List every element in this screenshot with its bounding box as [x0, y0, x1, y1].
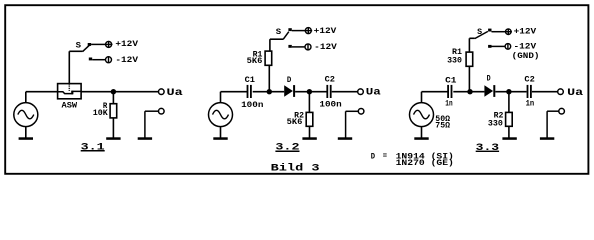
svg-text:=: = — [383, 153, 388, 161]
svg-text:75Ω: 75Ω — [435, 123, 450, 131]
svg-text:-12V: -12V — [314, 44, 337, 52]
svg-text:+12V: +12V — [514, 29, 537, 37]
svg-text:1n: 1n — [526, 101, 535, 109]
svg-text:C1: C1 — [245, 77, 256, 85]
svg-text:Ua: Ua — [167, 88, 183, 99]
svg-text:R1: R1 — [452, 49, 462, 57]
svg-text:ASW: ASW — [62, 103, 78, 111]
svg-text:S: S — [477, 29, 482, 37]
svg-text:10K: 10K — [93, 110, 108, 118]
svg-text:+12V: +12V — [115, 41, 138, 49]
svg-text:D: D — [371, 153, 376, 161]
svg-text:R2: R2 — [494, 112, 504, 120]
svg-text:D: D — [487, 75, 491, 83]
svg-text:1n: 1n — [445, 101, 453, 109]
svg-text:5K6: 5K6 — [247, 58, 263, 66]
svg-text:Ua: Ua — [567, 88, 583, 99]
svg-text:330: 330 — [447, 58, 462, 66]
svg-text:+12V: +12V — [314, 28, 337, 36]
svg-text:-12V: -12V — [514, 44, 537, 52]
svg-text:3.1: 3.1 — [81, 142, 105, 153]
svg-text:3.2: 3.2 — [275, 143, 299, 154]
svg-text:S: S — [276, 29, 282, 37]
svg-text:100n: 100n — [241, 102, 264, 110]
svg-text:C1: C1 — [445, 77, 457, 85]
svg-text:S: S — [76, 43, 82, 51]
svg-text:C2: C2 — [325, 77, 336, 85]
svg-text:-12V: -12V — [115, 57, 138, 65]
svg-text:330: 330 — [488, 121, 503, 129]
svg-text:Ua: Ua — [366, 88, 381, 99]
svg-text:D: D — [287, 77, 292, 85]
svg-text:3.3: 3.3 — [476, 143, 499, 154]
svg-text:(GND): (GND) — [512, 53, 540, 61]
svg-text:5K6: 5K6 — [287, 119, 303, 127]
svg-text:Bild 3: Bild 3 — [271, 162, 320, 174]
svg-text:C2: C2 — [524, 77, 535, 85]
svg-text:1N270 (GE): 1N270 (GE) — [396, 160, 454, 168]
svg-text:100n: 100n — [319, 102, 342, 110]
